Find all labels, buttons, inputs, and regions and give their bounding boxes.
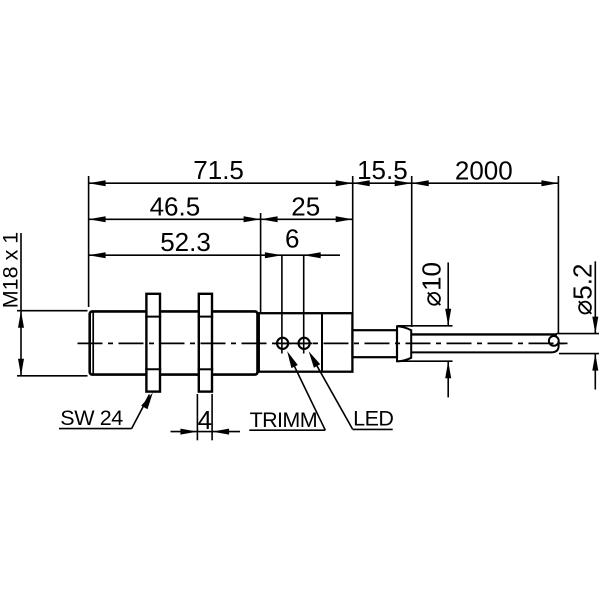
dia10 dim line lower (447, 361, 449, 397)
M18 arrow down (18, 359, 24, 376)
led hole (299, 338, 310, 349)
cable top edge (411, 333, 557, 335)
barrel face inner line (92, 312, 94, 375)
SW24 leader arrow (141, 393, 153, 410)
arrow 2000 left (412, 180, 429, 186)
dia10 extension top (398, 325, 453, 327)
dia10 arrow down (445, 309, 451, 326)
dia5.2 dim line upper (594, 261, 596, 333)
dim 4 line (171, 431, 241, 433)
dim 4 extension right (211, 394, 213, 440)
nut1 facet bottom (145, 368, 161, 370)
extension line x=303.7 (led) (303, 255, 305, 353)
centerline tick through led hole (296, 342, 313, 344)
centerline (78, 342, 568, 344)
svg-text:TRIMM: TRIMM (250, 408, 317, 432)
dia5.2 extension bottom (559, 353, 599, 355)
TRIMM leader (292, 360, 326, 430)
cable gland cylinder (353, 330, 398, 357)
dim 4 arrow right (180, 429, 197, 435)
dia10 dim line upper (447, 262, 449, 325)
LED leader arrow (309, 351, 321, 368)
svg-text:LED: LED (353, 407, 393, 431)
svg-text:71.5: 71.5 (193, 155, 244, 185)
nut2 facet bottom (198, 368, 214, 370)
cable end rounded corner (551, 342, 559, 353)
SW24 underline (59, 428, 132, 430)
svg-text:4: 4 (198, 405, 212, 435)
arrow 52.3 right / 6 left (265, 252, 282, 258)
dimension row1 line 71.5/15.5/2000 (89, 182, 559, 184)
dia10 extension bottom (398, 360, 453, 362)
dimension row3 line 52.3/6 (89, 254, 340, 256)
svg-text:52.3: 52.3 (160, 227, 211, 257)
centerline tick through trimmer hole (274, 342, 292, 344)
extension line x=352.7 (housing end) (352, 176, 354, 313)
nut1 facet top (145, 316, 161, 318)
arrow 46.5 right (244, 216, 261, 222)
M18 arrow up (18, 311, 24, 328)
M18 dimension line (20, 233, 22, 376)
LED underline (353, 428, 393, 430)
housing rear section (259, 313, 353, 372)
dim 4 arrow left (212, 429, 229, 435)
housing divider (321, 313, 323, 372)
hex nut 2 (199, 294, 212, 392)
TRIMM underline (249, 429, 325, 431)
extension line x=88.6 (sensing face) (88, 176, 90, 307)
nut2 facet top (198, 316, 214, 318)
arrow 25 right (336, 216, 353, 222)
svg-text:SW 24: SW 24 (60, 406, 123, 430)
arrow 15.5 left (353, 180, 370, 186)
extension line x=281.9 (trimmer) (281, 255, 283, 353)
arrow row1 left tip 71.5 (89, 180, 106, 186)
svg-text:2000: 2000 (455, 155, 513, 185)
extension line x=558.4 (cable end) (557, 176, 559, 334)
arrow 25 left (261, 216, 278, 222)
extension line x=411.7 (gland end) (411, 176, 413, 327)
arrow row3 left tip 52.3 (89, 252, 106, 258)
strain relief bell (397, 325, 411, 362)
cable end loop (549, 336, 559, 346)
dimension row2 line 46.5/25 (89, 218, 353, 220)
LED leader (314, 360, 353, 430)
svg-text:15.5: 15.5 (357, 155, 408, 185)
cable bottom edge (411, 351, 551, 353)
TRIMM leader arrow (287, 351, 298, 368)
dia5.2 arrow down (592, 317, 598, 334)
arrow row2 left tip 46.5 (89, 216, 106, 222)
svg-text:M18 x 1: M18 x 1 (0, 232, 23, 308)
dia5.2 extension top (557, 333, 600, 335)
trimmer hole (277, 338, 288, 349)
dia5.2 arrow up (592, 354, 598, 371)
SW24 leader (132, 395, 150, 429)
dia10 arrow up (445, 361, 451, 378)
arrow 6 right (304, 252, 321, 258)
svg-text:⌀10: ⌀10 (417, 262, 447, 307)
centerline tick at cable end (560, 342, 568, 344)
barrel M18 body (90, 311, 258, 374)
arrow 15.5 right (395, 180, 412, 186)
hex nut 1 (146, 294, 160, 392)
dim 4 extension left (196, 394, 198, 440)
M18 extension top (17, 310, 88, 312)
svg-text:6: 6 (285, 223, 299, 253)
extension line x=260.6 (barrel end) (260, 213, 262, 312)
M18 extension bottom (17, 375, 88, 377)
dia5.2 dim line lower (594, 354, 596, 390)
arrow 2000 right (541, 180, 558, 186)
svg-text:25: 25 (291, 192, 320, 222)
svg-text:46.5: 46.5 (150, 192, 201, 222)
arrow row1 right of 71.5 (336, 180, 353, 186)
svg-text:⌀5.2: ⌀5.2 (568, 264, 598, 316)
